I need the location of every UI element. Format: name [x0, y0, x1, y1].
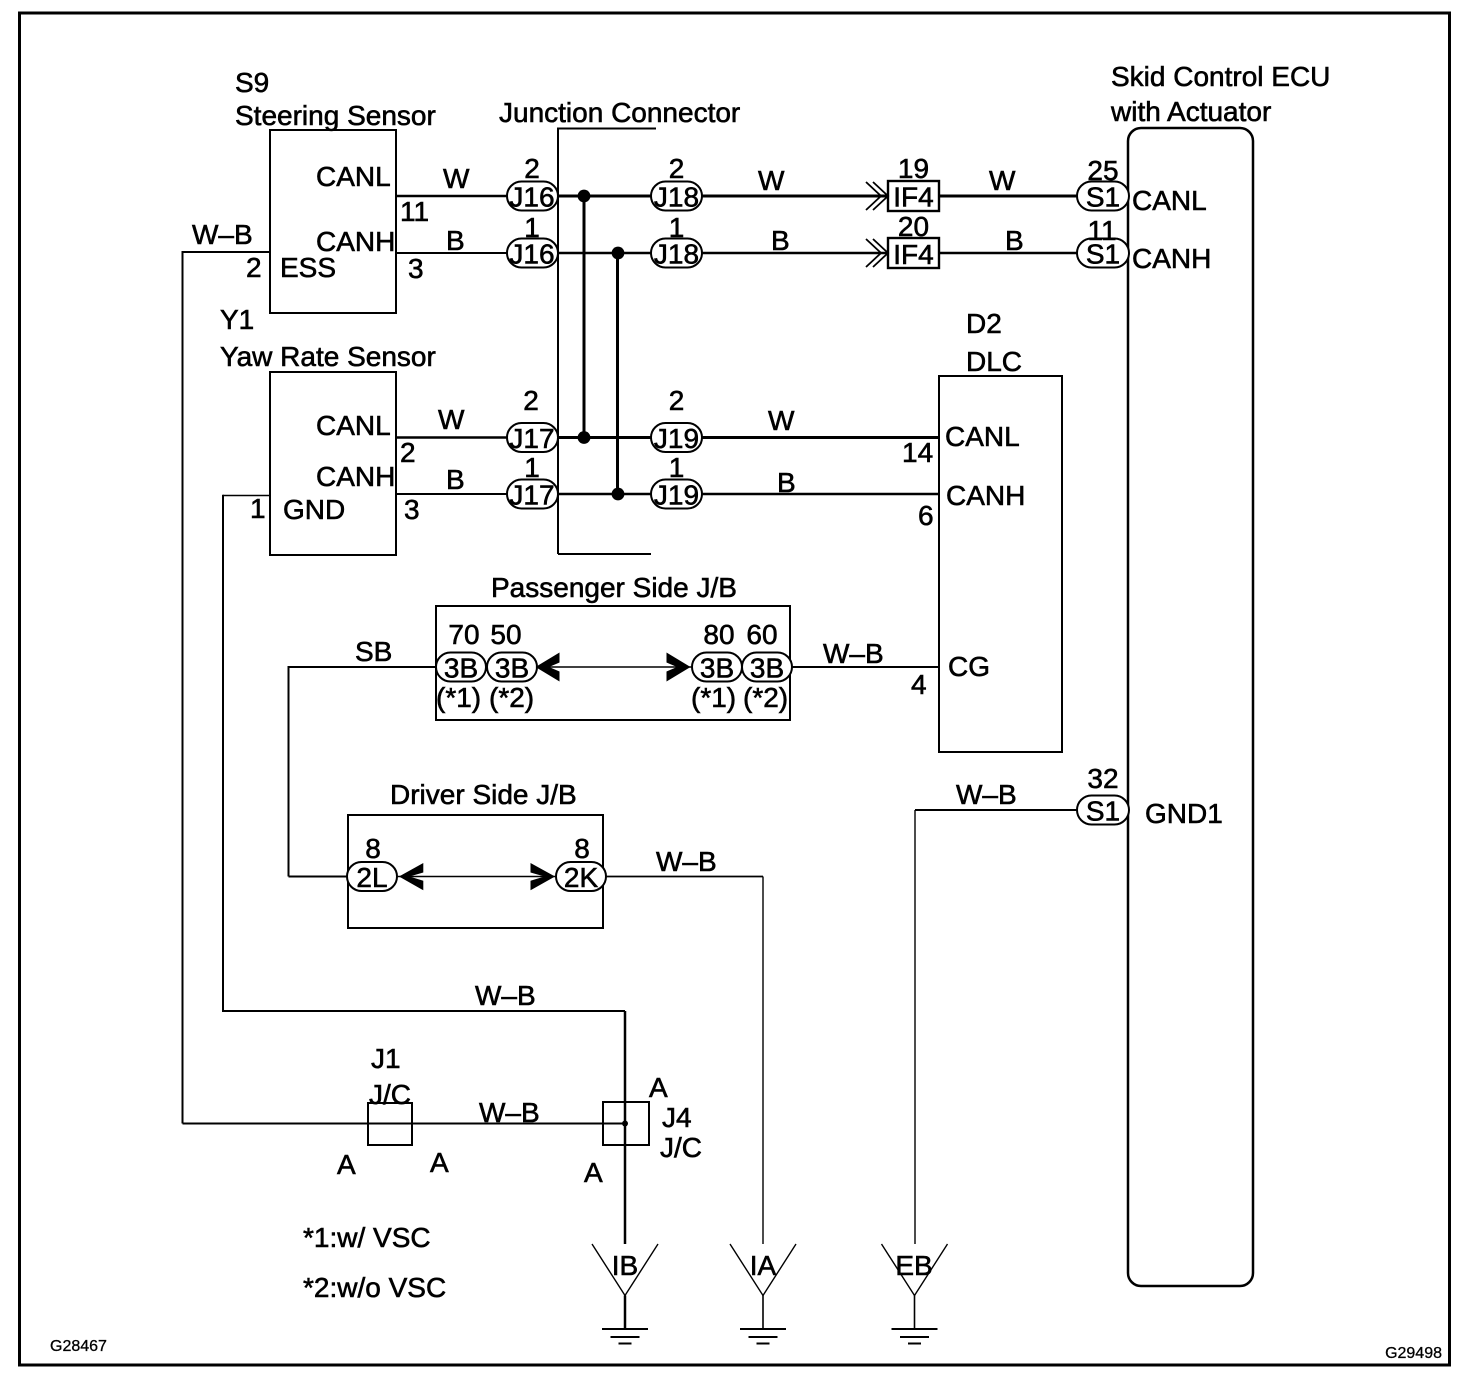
svg-text:1: 1	[669, 452, 685, 483]
svg-text:80: 80	[703, 619, 734, 650]
svg-text:W–B: W–B	[479, 1097, 540, 1128]
svg-text:(*1): (*1)	[691, 682, 736, 713]
svg-text:W: W	[989, 165, 1016, 196]
svg-text:70: 70	[448, 619, 479, 650]
svg-text:3B: 3B	[444, 653, 478, 684]
svg-text:J19: J19	[654, 423, 699, 454]
svg-text:CANH: CANH	[946, 480, 1025, 511]
svg-text:W–B: W–B	[823, 638, 884, 669]
svg-text:CG: CG	[948, 651, 990, 682]
svg-text:Y1: Y1	[220, 304, 254, 335]
svg-text:Junction Connector: Junction Connector	[499, 97, 740, 128]
svg-text:14: 14	[902, 437, 933, 468]
svg-text:3B: 3B	[495, 653, 529, 684]
svg-text:20: 20	[898, 211, 929, 242]
svg-text:IF4: IF4	[893, 182, 933, 213]
svg-text:B: B	[771, 225, 790, 256]
svg-text:IA: IA	[750, 1250, 777, 1281]
svg-text:W: W	[443, 163, 470, 194]
svg-text:2: 2	[669, 153, 685, 184]
svg-text:CANH: CANH	[1132, 243, 1211, 274]
svg-text:SB: SB	[355, 636, 392, 667]
svg-text:B: B	[777, 467, 796, 498]
svg-text:A: A	[584, 1157, 603, 1188]
svg-text:W–B: W–B	[956, 779, 1017, 810]
svg-text:B: B	[446, 225, 465, 256]
svg-text:50: 50	[490, 619, 521, 650]
svg-text:3: 3	[408, 253, 424, 284]
svg-text:W: W	[758, 165, 785, 196]
svg-text:8: 8	[365, 833, 381, 864]
svg-text:(*2): (*2)	[743, 682, 788, 713]
svg-text:W–B: W–B	[475, 980, 536, 1011]
svg-text:W: W	[438, 404, 465, 435]
svg-text:(*2): (*2)	[489, 682, 534, 713]
svg-text:Driver Side J/B: Driver Side J/B	[390, 779, 577, 810]
svg-text:J/C: J/C	[660, 1132, 702, 1163]
svg-text:IF4: IF4	[893, 239, 933, 270]
svg-text:J4: J4	[662, 1102, 692, 1133]
svg-text:2: 2	[669, 385, 685, 416]
svg-text:Yaw Rate Sensor: Yaw Rate Sensor	[220, 341, 436, 372]
svg-text:2K: 2K	[564, 862, 599, 893]
svg-text:*2:w/o VSC: *2:w/o VSC	[303, 1272, 446, 1303]
svg-text:CANL: CANL	[1132, 185, 1207, 216]
svg-text:S1: S1	[1086, 796, 1120, 827]
svg-text:S1: S1	[1086, 182, 1120, 213]
svg-text:1: 1	[524, 452, 540, 483]
svg-text:32: 32	[1087, 763, 1118, 794]
svg-text:CANL: CANL	[945, 421, 1020, 452]
svg-text:60: 60	[746, 619, 777, 650]
svg-text:A: A	[430, 1147, 449, 1178]
svg-text:J17: J17	[509, 423, 554, 454]
svg-text:2: 2	[246, 252, 262, 283]
svg-text:2: 2	[400, 437, 416, 468]
svg-text:GND1: GND1	[1145, 798, 1223, 829]
svg-text:A: A	[337, 1149, 356, 1180]
svg-text:3B: 3B	[700, 653, 734, 684]
svg-text:2: 2	[524, 153, 540, 184]
svg-text:6: 6	[918, 500, 934, 531]
svg-text:J1: J1	[371, 1043, 401, 1074]
svg-text:J18: J18	[654, 182, 699, 213]
svg-text:J17: J17	[509, 480, 554, 511]
svg-text:CANH: CANH	[316, 461, 395, 492]
svg-text:2: 2	[523, 385, 539, 416]
svg-text:4: 4	[911, 669, 927, 700]
svg-text:1: 1	[250, 493, 266, 524]
svg-text:2L: 2L	[356, 862, 387, 893]
svg-text:J16: J16	[509, 239, 554, 270]
svg-text:3: 3	[404, 494, 420, 525]
svg-text:W: W	[768, 405, 795, 436]
svg-text:S9: S9	[235, 67, 269, 98]
svg-text:IB: IB	[612, 1250, 638, 1281]
svg-text:A: A	[649, 1072, 668, 1103]
svg-text:S1: S1	[1086, 239, 1120, 270]
svg-text:G28467: G28467	[50, 1338, 107, 1355]
svg-text:(*1): (*1)	[436, 682, 481, 713]
svg-text:J18: J18	[654, 239, 699, 270]
svg-text:J/C: J/C	[369, 1079, 411, 1110]
svg-text:Passenger Side J/B: Passenger Side J/B	[491, 572, 737, 603]
svg-text:J19: J19	[654, 480, 699, 511]
svg-text:CANL: CANL	[316, 161, 391, 192]
svg-text:EB: EB	[895, 1250, 932, 1281]
svg-text:B: B	[446, 464, 465, 495]
svg-text:ESS: ESS	[280, 252, 336, 283]
svg-text:W–B: W–B	[656, 846, 717, 877]
svg-text:W–B: W–B	[192, 219, 253, 250]
svg-text:19: 19	[898, 153, 929, 184]
svg-text:Steering Sensor: Steering Sensor	[235, 100, 436, 131]
svg-text:*1:w/ VSC: *1:w/ VSC	[303, 1222, 431, 1253]
svg-text:with Actuator: with Actuator	[1110, 96, 1271, 127]
svg-text:J16: J16	[509, 182, 554, 213]
svg-text:DLC: DLC	[966, 346, 1022, 377]
svg-text:G29498: G29498	[1385, 1345, 1442, 1362]
svg-text:CANL: CANL	[316, 410, 391, 441]
svg-text:8: 8	[574, 833, 590, 864]
svg-text:D2: D2	[966, 308, 1002, 339]
svg-text:Skid Control ECU: Skid Control ECU	[1111, 61, 1330, 92]
svg-text:B: B	[1005, 225, 1024, 256]
svg-text:11: 11	[400, 196, 429, 227]
svg-text:3B: 3B	[750, 653, 784, 684]
svg-text:GND: GND	[283, 494, 345, 525]
